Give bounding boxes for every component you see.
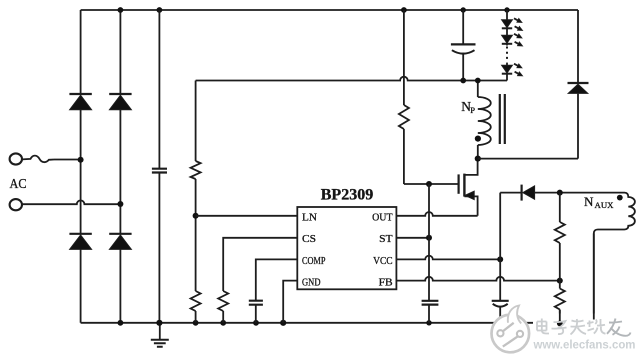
wire Naux return redraw: [593, 234, 595, 320]
diode D2: [109, 94, 131, 110]
wire C3 lead: [428, 305, 430, 323]
node Naux phase dot: [617, 195, 623, 201]
fuse F1: [22, 156, 54, 163]
diode D1: [69, 94, 91, 110]
LED LED2: [502, 34, 523, 46]
node bottom rail junctions: [118, 320, 503, 326]
svg-text:GND: GND: [302, 276, 321, 288]
svg-text:LN: LN: [302, 211, 317, 223]
wire LN pin: [196, 215, 298, 217]
capacitor C5 VCC: [492, 301, 509, 307]
svg-text:ST: ST: [379, 233, 393, 245]
wire COMP pin: [256, 259, 297, 300]
op-amp U1 BP2309 body: [297, 207, 396, 289]
capacitor C4 output: [451, 10, 476, 81]
diode D6 aux: [522, 185, 535, 201]
ground: [151, 323, 169, 347]
wire VCC pin with hop: [396, 256, 500, 260]
svg-text:VCC: VCC: [373, 255, 393, 267]
watermark logo: [492, 306, 530, 353]
label Np: [461, 99, 475, 115]
svg-text:AC: AC: [10, 177, 27, 192]
svg-text:P: P: [470, 105, 475, 115]
node ST junction: [426, 235, 432, 241]
LED string column: [506, 10, 508, 81]
resistor R2: [191, 291, 201, 311]
transformer T1 primary Np: [478, 81, 491, 159]
wire CS lead: [222, 311, 224, 323]
transistor Q1 MOSFET: [459, 159, 478, 216]
svg-text:BP2309: BP2309: [321, 187, 374, 204]
diode D4: [109, 234, 131, 250]
wire drain to clamp: [478, 158, 578, 160]
wire ST to gate column: [428, 184, 430, 300]
diode D5: [568, 83, 589, 93]
svg-text:OUT: OUT: [372, 211, 393, 223]
watermark chinese text: [537, 319, 606, 335]
label Naux: [584, 194, 614, 210]
node mid rail junctions: [460, 78, 480, 84]
svg-text:N: N: [584, 194, 594, 209]
node FB junction: [557, 278, 563, 284]
wire feedback divider column: [559, 193, 561, 323]
LED LED1: [502, 18, 523, 30]
wire R6 lead redraw: [559, 310, 561, 324]
node gate junction: [426, 181, 432, 187]
node aux junction: [557, 190, 563, 196]
wire OUT pin with hop: [396, 212, 477, 216]
wire FB pin with hops: [396, 277, 559, 281]
transformer core: [500, 94, 505, 144]
transformer T1 aux winding: [594, 193, 635, 323]
wire COMP lead: [255, 305, 257, 323]
svg-text:COMP: COMP: [302, 255, 326, 267]
wire ST pin: [396, 237, 429, 239]
wire bottom rail: [81, 322, 594, 324]
node AC1 junction: [78, 157, 84, 163]
wire GND pin: [283, 281, 297, 323]
wire gate: [404, 183, 458, 185]
wire AC line input: [54, 159, 81, 161]
node AC2 junction: [117, 201, 123, 207]
svg-text:CS: CS: [302, 233, 316, 245]
wire dotted LED continuation: [506, 47, 508, 63]
wire bridge second column: [119, 10, 121, 323]
watermark backing: [533, 314, 640, 360]
wire bridge left column upper: [80, 10, 82, 323]
resistor R1: [191, 161, 201, 179]
svg-text:AUX: AUX: [595, 200, 614, 210]
wire AC neutral with hop: [22, 200, 120, 204]
resistor R6: [555, 289, 565, 310]
wire aux diode row: [500, 192, 624, 194]
node VCC junction: [497, 256, 503, 262]
wire top rail: [81, 9, 578, 11]
capacitor C1 bulk filter: [152, 10, 167, 323]
AC terminal bottom: [10, 199, 22, 210]
watermark last char: [607, 319, 631, 336]
svg-text:FB: FB: [379, 276, 393, 288]
resistor R3: [218, 291, 228, 311]
resistor R4 startup: [399, 105, 409, 129]
AC terminal top: [10, 153, 22, 164]
node top rail junctions: [118, 7, 510, 13]
wire clamp column: [577, 10, 579, 159]
svg-text:www.elecfans.com: www.elecfans.com: [533, 338, 636, 352]
node drain junction: [475, 156, 481, 162]
wire mid rail y80 with hop over gate column: [196, 77, 507, 81]
wire gate column: [403, 10, 405, 184]
wire CS pin: [223, 238, 297, 291]
wire VCC column: [499, 193, 501, 323]
capacitor C3: [422, 301, 439, 305]
LED LED3: [502, 64, 523, 76]
capacitor C2: [249, 301, 263, 305]
node Np phase dot: [475, 136, 481, 142]
wire LN sense column: [195, 81, 197, 323]
node LN junction: [193, 213, 199, 219]
diode D3: [69, 234, 91, 250]
resistor R5: [555, 222, 565, 243]
